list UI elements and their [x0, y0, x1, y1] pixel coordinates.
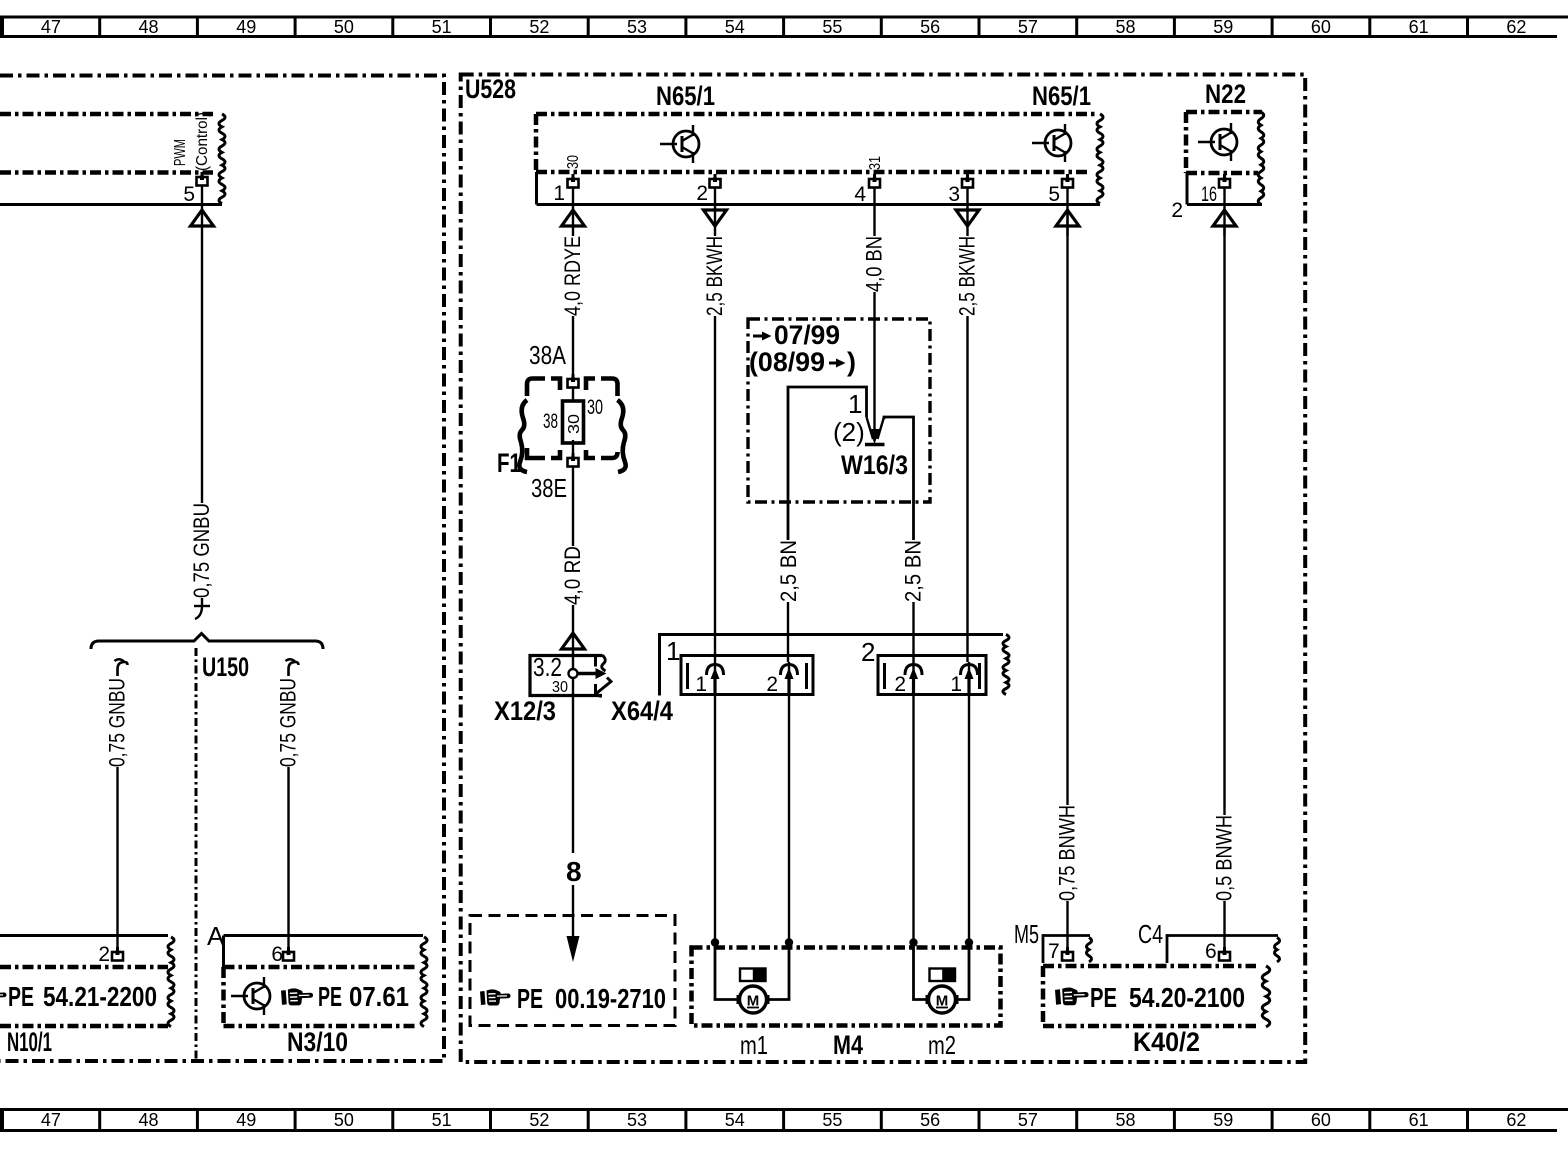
N10/1 PE box [0, 967, 168, 1026]
svg-text:N10/1: N10/1 [7, 1027, 52, 1057]
svg-text:1: 1 [950, 673, 962, 696]
wire pin3 down to X64/4 [966, 316, 968, 662]
svg-text:2,5 BN: 2,5 BN [901, 540, 926, 602]
contact arrows box2 [905, 665, 922, 676]
svg-text:51: 51 [432, 1110, 452, 1130]
pin 3 N65/1 [962, 174, 973, 188]
X12/3 torn edge with arrow out [602, 655, 606, 671]
transistor symbol N65/1 left [660, 125, 699, 163]
svg-text:W16/3: W16/3 [841, 450, 908, 480]
wire pin1 to fuse [572, 316, 574, 379]
svg-text:0,75 BNWH: 0,75 BNWH [1055, 805, 1080, 901]
N22 torn edge [1258, 112, 1264, 204]
svg-text:8: 8 [566, 856, 582, 887]
triangle up pin1 [562, 210, 585, 226]
svg-text:56: 56 [920, 17, 940, 37]
M4 component box [692, 948, 1001, 1026]
svg-text:m2: m2 [928, 1030, 956, 1060]
clipped pointing hand N10/1 [0, 988, 7, 1004]
svg-text:59: 59 [1213, 17, 1233, 37]
svg-text:7: 7 [1048, 940, 1060, 963]
svg-text:U150: U150 [202, 652, 249, 682]
svg-text:2: 2 [1171, 199, 1183, 222]
svg-text:(2): (2) [833, 417, 865, 447]
version box 07/99 [748, 319, 930, 502]
right branch hook [289, 662, 299, 676]
svg-text:58: 58 [1116, 17, 1136, 37]
svg-text:4,0 RDYE: 4,0 RDYE [560, 236, 585, 316]
svg-text:2: 2 [98, 943, 110, 966]
svg-text:2: 2 [696, 182, 708, 205]
N22 component box [1186, 112, 1262, 173]
svg-text:47: 47 [41, 17, 61, 37]
svg-text:52: 52 [529, 17, 549, 37]
svg-text:): ) [847, 347, 856, 377]
svg-text:38: 38 [543, 410, 558, 433]
left module socket shell line [0, 203, 222, 206]
svg-text:F1: F1 [497, 448, 521, 478]
svg-text:4,0 BN: 4,0 BN [862, 236, 887, 292]
svg-text:54: 54 [725, 17, 745, 37]
wire X12/3 down [572, 696, 574, 853]
fuse element rect [572, 387, 574, 404]
wires through X64/4 down to M4 [714, 662, 716, 940]
N3/10 shell [224, 936, 424, 968]
svg-text:53: 53 [627, 17, 647, 37]
wire pin5 down to M5 [1066, 213, 1068, 805]
triangle down pin3 [956, 210, 979, 226]
pointing hand K40/2 [1055, 987, 1089, 1005]
svg-text:16: 16 [1201, 183, 1217, 206]
torn edge of PWM box [219, 114, 225, 204]
K40/2 torn edge [1262, 966, 1270, 1027]
transistor symbol N3/10 [231, 977, 270, 1015]
N65/1 component box [536, 114, 1096, 172]
N22 socket shell [1187, 173, 1262, 205]
pin 2 N65/1 [710, 174, 721, 188]
m2 polarity mark [930, 969, 956, 982]
svg-text:U528: U528 [465, 74, 516, 104]
wire branch 2 (08/99-) [884, 417, 914, 540]
m2 motor wiring [914, 940, 929, 1000]
pin 6 C4 [1219, 947, 1230, 961]
svg-text:1: 1 [553, 182, 565, 205]
svg-text:5: 5 [183, 183, 195, 206]
wire end T-bar + hook (splice A) [201, 598, 203, 606]
svg-text:48: 48 [139, 17, 159, 37]
wire through X12/3 [572, 656, 574, 669]
PWM control connector box in left module [0, 114, 213, 173]
svg-text:2,5 BKWH: 2,5 BKWH [702, 236, 727, 316]
arrow out of X12/3 [578, 672, 598, 676]
svg-text:(Control): (Control) [194, 112, 211, 171]
fuse F1 top contact [568, 374, 579, 388]
contact arrows box1 [707, 665, 724, 676]
svg-text:PE: PE [8, 981, 34, 1012]
right branch wire [287, 767, 289, 952]
svg-text:54.21-2200: 54.21-2200 [43, 981, 157, 1012]
X64/4 bracket shell [660, 635, 1004, 696]
X12/3 connector box [530, 656, 602, 696]
svg-text:2: 2 [894, 673, 906, 696]
pointing hand N3/10 [281, 988, 313, 1005]
pin 5 N65/1 [1062, 174, 1073, 188]
svg-text:PE: PE [1090, 982, 1117, 1013]
M5 shell [1043, 936, 1090, 964]
splice circle in X12/3 [569, 669, 578, 678]
BN wires continue [787, 602, 789, 662]
svg-text:1: 1 [695, 673, 707, 696]
svg-text:0,75 GNBU: 0,75 GNBU [105, 678, 130, 767]
wire pin4 [873, 187, 875, 236]
junction dots on M4 edge [711, 938, 719, 946]
K40/2 PE box [1043, 966, 1256, 1026]
triangle up pin16 [1213, 210, 1236, 226]
svg-text:54: 54 [725, 1110, 745, 1130]
svg-text:55: 55 [822, 17, 842, 37]
grid ruler top [0, 16, 1568, 39]
svg-text:60: 60 [1311, 1110, 1331, 1130]
pin 6 of N3/10 [283, 947, 294, 961]
svg-text:6: 6 [1205, 940, 1217, 963]
svg-text:6: 6 [271, 943, 283, 966]
svg-text:X64/4: X64/4 [611, 696, 673, 726]
pin 5 of left module [197, 172, 208, 186]
svg-text:62: 62 [1506, 17, 1526, 37]
N10/1 shell line [0, 934, 168, 937]
triangle up X12/3 [562, 633, 585, 649]
svg-text:(08/99: (08/99 [749, 347, 825, 377]
wire pin2 down to X64/4 [714, 316, 716, 662]
F1 fuse cutout outline [519, 379, 625, 473]
svg-text:M4: M4 [833, 1030, 863, 1060]
N65/1 torn right edge [1097, 114, 1103, 204]
N10/1 torn edge [168, 937, 174, 1027]
svg-text:53: 53 [627, 1110, 647, 1130]
grid ruler bottom [0, 1108, 1568, 1132]
transistor symbol N22 [1198, 123, 1237, 161]
svg-text:2,5 BKWH: 2,5 BKWH [955, 236, 980, 316]
m2 motor [926, 986, 959, 1013]
svg-text:58: 58 [1116, 1110, 1136, 1130]
svg-text:4,0 RD: 4,0 RD [560, 546, 585, 605]
svg-text:N22: N22 [1205, 79, 1246, 109]
svg-text:38A: 38A [529, 340, 567, 370]
m1 polarity mark [740, 969, 766, 982]
triangle up pin5 [1056, 210, 1079, 226]
svg-text:PE: PE [318, 981, 342, 1012]
svg-text:49: 49 [236, 17, 256, 37]
svg-text:4: 4 [854, 183, 866, 206]
pin 1 N65/1 [568, 174, 579, 188]
wire N22 down [1223, 226, 1225, 815]
N3/10 PE box [224, 967, 419, 1026]
W16/3 arrow junction [867, 417, 874, 439]
svg-text:PE: PE [517, 983, 543, 1014]
svg-text:0,75 GNBU: 0,75 GNBU [276, 678, 301, 767]
svg-text:0,75 GNBU: 0,75 GNBU [189, 503, 214, 598]
m1 motor [737, 986, 770, 1013]
svg-text:2: 2 [766, 673, 778, 696]
svg-text:M5: M5 [1014, 919, 1039, 949]
pin 4 N65/1 [869, 174, 880, 188]
svg-text:K40/2: K40/2 [1133, 1027, 1200, 1057]
svg-text:07/99: 07/99 [774, 320, 840, 350]
svg-text:00.19-2710: 00.19-2710 [555, 983, 666, 1014]
svg-text:61: 61 [1409, 1110, 1429, 1130]
svg-text:50: 50 [334, 17, 354, 37]
svg-text:2,5 BN: 2,5 BN [776, 540, 801, 602]
svg-text:1: 1 [848, 389, 862, 419]
pin 2 of N10/1 [112, 947, 123, 961]
N65/1 socket shell [537, 172, 1101, 205]
svg-text:54.20-2100: 54.20-2100 [1129, 982, 1245, 1013]
C4 shell [1167, 936, 1278, 964]
svg-text:2: 2 [861, 637, 875, 667]
wire pin4 down into 07/99 box [873, 292, 875, 440]
arrow into PE 00.19-2710 [572, 885, 574, 940]
wire branch 1 (to 07/99) [788, 387, 867, 540]
pointing hand PE 00.19 [480, 989, 511, 1005]
triangle down pin2 [704, 210, 727, 226]
svg-text:m1: m1 [740, 1030, 768, 1060]
svg-text:30: 30 [565, 155, 582, 169]
svg-text:50: 50 [334, 1110, 354, 1130]
svg-text:3.2: 3.2 [533, 652, 562, 682]
signal triangle up at pin 5 [191, 210, 214, 226]
svg-text:61: 61 [1409, 17, 1429, 37]
left branch hook [118, 662, 128, 676]
svg-text:51: 51 [432, 17, 452, 37]
svg-text:N65/1: N65/1 [1032, 81, 1091, 111]
svg-text:60: 60 [1311, 17, 1331, 37]
svg-text:30: 30 [587, 396, 603, 419]
svg-text:N3/10: N3/10 [287, 1027, 348, 1057]
svg-text:38E: 38E [531, 473, 567, 503]
ground reference box PE 00.19-2710 [470, 916, 675, 1026]
wire fuse to X12/3 [572, 466, 574, 546]
X64/4 box 2 [878, 656, 986, 695]
svg-text:47: 47 [41, 1110, 61, 1130]
svg-text:57: 57 [1018, 17, 1038, 37]
transistor symbol N65/1 right [1032, 124, 1071, 162]
splice brace U150 [91, 634, 323, 650]
svg-text:56: 56 [920, 1110, 940, 1130]
U150 divider dash-dot line [195, 648, 198, 1061]
svg-text:07.61: 07.61 [349, 981, 409, 1012]
svg-text:31: 31 [867, 156, 884, 170]
svg-text:X12/3: X12/3 [494, 696, 556, 726]
pin 7 M5 [1062, 947, 1073, 961]
svg-text:30: 30 [566, 414, 583, 434]
svg-text:57: 57 [1018, 1110, 1038, 1130]
m1 motor wiring [715, 940, 739, 1000]
svg-text:55: 55 [822, 1110, 842, 1130]
U528 subsystem box [461, 75, 1305, 1063]
N3/10 torn edge [421, 937, 427, 1027]
svg-text:49: 49 [236, 1110, 256, 1130]
fuse F1 bottom contact [572, 440, 574, 458]
svg-text:0,5 BNWH: 0,5 BNWH [1212, 815, 1237, 901]
svg-text:48: 48 [139, 1110, 159, 1130]
svg-text:3: 3 [948, 183, 960, 206]
left control module outer box [0, 76, 444, 1062]
left branch wire [116, 767, 118, 952]
X64/4 box 1 [681, 656, 813, 695]
svg-text:62: 62 [1506, 1110, 1526, 1130]
svg-text:1: 1 [666, 636, 680, 666]
pin 16 N22 [1219, 174, 1230, 188]
text ->07/99 [753, 335, 766, 338]
svg-text:PWM: PWM [172, 139, 189, 166]
svg-text:30: 30 [552, 679, 568, 696]
svg-text:52: 52 [529, 1110, 549, 1130]
svg-text:5: 5 [1048, 183, 1060, 206]
wire pin5 down [201, 185, 203, 503]
svg-text:59: 59 [1213, 1110, 1233, 1130]
svg-text:N65/1: N65/1 [656, 81, 715, 111]
svg-text:C4: C4 [1138, 919, 1163, 949]
